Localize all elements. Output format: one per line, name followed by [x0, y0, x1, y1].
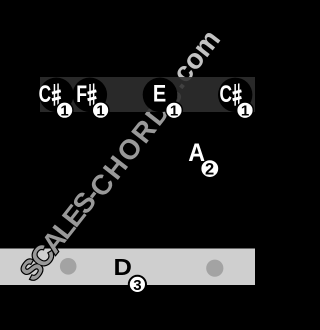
finger badge 1 (C# left) — [56, 102, 73, 120]
svg-text:D: D — [114, 255, 132, 281]
finger badge 2 (A) — [201, 160, 219, 179]
note label D — [114, 255, 132, 281]
note label F# — [76, 81, 97, 107]
svg-text:2: 2 — [205, 160, 214, 178]
note label C# left — [39, 81, 62, 107]
marker circle C# (right) — [218, 78, 252, 112]
note label C# right — [220, 81, 242, 107]
nut band (bottom light bar) — [0, 249, 255, 286]
svg-text:C: C — [39, 81, 51, 107]
finger badge 1 (F#) — [92, 102, 109, 120]
svg-text:1: 1 — [241, 103, 249, 120]
marker circle E — [143, 78, 178, 113]
finger badge 1 (C# right) — [237, 102, 254, 120]
svg-text:1: 1 — [60, 103, 68, 120]
svg-text:C: C — [220, 81, 232, 107]
marker circle F# — [73, 78, 108, 113]
svg-text:1: 1 — [170, 103, 178, 120]
inlay dot left — [60, 258, 77, 275]
inlay dot right — [206, 260, 223, 277]
note label A — [188, 139, 205, 167]
note label E — [153, 80, 166, 107]
marker circle C# (left) — [39, 78, 74, 113]
finger badge 3 (D) — [129, 276, 146, 294]
svg-text:3: 3 — [133, 277, 141, 294]
svg-text:F: F — [76, 81, 87, 107]
fret band (top dark bar, drawn over watermark) — [40, 77, 255, 112]
svg-text:E: E — [153, 80, 166, 107]
svg-text:1: 1 — [96, 103, 104, 120]
finger badge 1 (E) — [166, 102, 183, 120]
